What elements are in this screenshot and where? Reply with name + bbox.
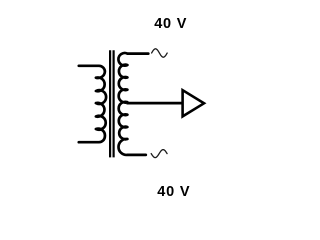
AC sine squiggle top [152,49,168,57]
transformer primary winding [79,66,106,142]
output arrow (open triangle) [183,90,204,116]
transformer core line 1 [109,50,111,157]
AC sine squiggle bottom [151,150,167,158]
label 40 V (top) [154,16,187,32]
wire: center tap to output arrow [127,102,183,105]
transformer secondary winding (center-tapped) [118,53,148,155]
transformer core line 2 [112,50,114,157]
label 40 V (bottom) [157,184,190,200]
